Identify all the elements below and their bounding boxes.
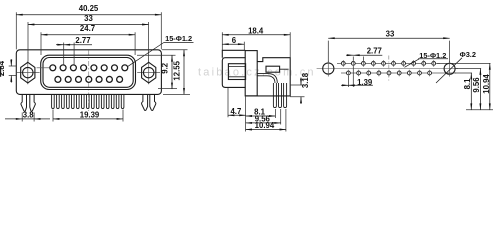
svg-text:9.56: 9.56 — [472, 77, 481, 93]
svg-text:12.55: 12.55 — [173, 60, 182, 80]
flange side plate — [245, 51, 257, 96]
dim 33 footprint — [328, 38, 449, 62]
svg-text:18.4: 18.4 — [248, 26, 264, 35]
link line hex to pin1 — [37, 67, 50, 69]
label phi3.2 — [436, 58, 462, 83]
svg-text:15-Φ1.2: 15-Φ1.2 — [419, 51, 446, 60]
contact recess — [266, 66, 280, 72]
dim 9.56 footprint — [479, 69, 481, 110]
mounting hole left crosshair — [327, 61, 329, 77]
contact stub line — [280, 68, 289, 70]
dim 9.56 side — [246, 109, 281, 125]
svg-text:Φ3.2: Φ3.2 — [460, 50, 476, 59]
top hole ticks — [343, 60, 433, 67]
top hole row 10 holes — [341, 62, 435, 66]
dim 24.7 — [41, 32, 135, 55]
svg-text:9.2: 9.2 — [160, 62, 169, 74]
pin 1 side — [273, 83, 276, 108]
bottom hole row 9 holes — [347, 71, 432, 75]
svg-text:2.77: 2.77 — [75, 36, 90, 45]
svg-text:2.84: 2.84 — [0, 60, 6, 76]
terminal elbow — [257, 74, 277, 83]
top ledge line — [222, 50, 245, 57]
svg-text:3.18: 3.18 — [301, 72, 310, 88]
footprint right ext lines — [437, 63, 493, 109]
svg-text:15-Φ1.2: 15-Φ1.2 — [165, 34, 192, 43]
dim 10.94 footprint — [489, 63, 491, 109]
horizontal centerline — [317, 68, 458, 70]
dim 8.1 footprint — [470, 73, 472, 110]
top pin row 8 circles — [50, 65, 128, 71]
svg-text:10.94: 10.94 — [255, 121, 275, 130]
shell inner — [43, 58, 133, 88]
svg-text:1.39: 1.39 — [357, 78, 373, 87]
mounting hole right — [444, 63, 455, 74]
mounting hole left — [323, 63, 334, 74]
dim 3.8 bottom left — [5, 113, 50, 122]
bracket snap leg right — [142, 94, 156, 110]
scan artifact left edge — [0, 67, 2, 77]
vertical centerline footprint — [388, 56, 390, 82]
dim 8.1 side — [246, 109, 276, 118]
jack screw hole right — [144, 67, 154, 77]
pin 2 side — [279, 83, 282, 108]
svg-text:2.77: 2.77 — [367, 47, 382, 56]
dim 4.7 — [228, 88, 246, 132]
svg-text:19.39: 19.39 — [80, 110, 100, 119]
flange plate — [16, 50, 161, 95]
svg-text:8.1: 8.1 — [463, 78, 472, 90]
screwlock inner lines — [228, 66, 245, 76]
top hole row line — [337, 62, 440, 64]
body outline — [246, 58, 291, 96]
dim 40.25 — [16, 12, 161, 49]
dim 2.84 left — [9, 59, 17, 82]
dim 6 — [222, 42, 244, 51]
solder pin comb 15 pins — [52, 94, 124, 108]
dim 12.55 right — [162, 50, 190, 95]
svg-text:4.7: 4.7 — [230, 107, 241, 116]
dim 2.77 front — [56, 43, 92, 65]
svg-text:40.25: 40.25 — [79, 4, 99, 13]
svg-text:6: 6 — [232, 36, 237, 45]
hex nut left crosshair — [17, 61, 40, 84]
mounting hole right crosshair — [449, 61, 451, 77]
dim 19.39 bottom — [53, 110, 123, 122]
hex nut right crosshair — [137, 61, 160, 84]
pin 3 side — [284, 83, 287, 108]
svg-text:33: 33 — [84, 14, 93, 23]
dim 9.2 right — [137, 55, 177, 89]
dim 3.18 — [290, 78, 304, 105]
dim 10.94 side — [246, 109, 286, 132]
centerline vertical front view — [88, 51, 90, 112]
barrel — [222, 58, 245, 88]
dim 2.77 footprint — [346, 55, 382, 60]
jack screw hole left — [23, 67, 33, 77]
shell outer — [41, 55, 136, 89]
label 15-phi1.2 front — [128, 43, 194, 67]
screwlock nut side — [228, 64, 245, 80]
dim 1.39 footprint — [341, 67, 373, 88]
bracket snap leg left — [21, 94, 35, 111]
svg-text:24.7: 24.7 — [80, 24, 95, 33]
bottom pin row 7 circles — [55, 76, 123, 82]
hex nut left — [21, 62, 35, 83]
svg-text:33: 33 — [386, 30, 395, 39]
hex nut right — [142, 62, 156, 83]
bottom hole row line — [341, 72, 456, 74]
svg-text:10.94: 10.94 — [482, 74, 491, 94]
label 15-phi1.2 footprint — [405, 59, 449, 68]
svg-text:3.8: 3.8 — [23, 110, 35, 119]
dim 18.4 — [222, 32, 290, 57]
bottom hole ticks — [348, 70, 429, 77]
dim 33 — [28, 22, 149, 62]
